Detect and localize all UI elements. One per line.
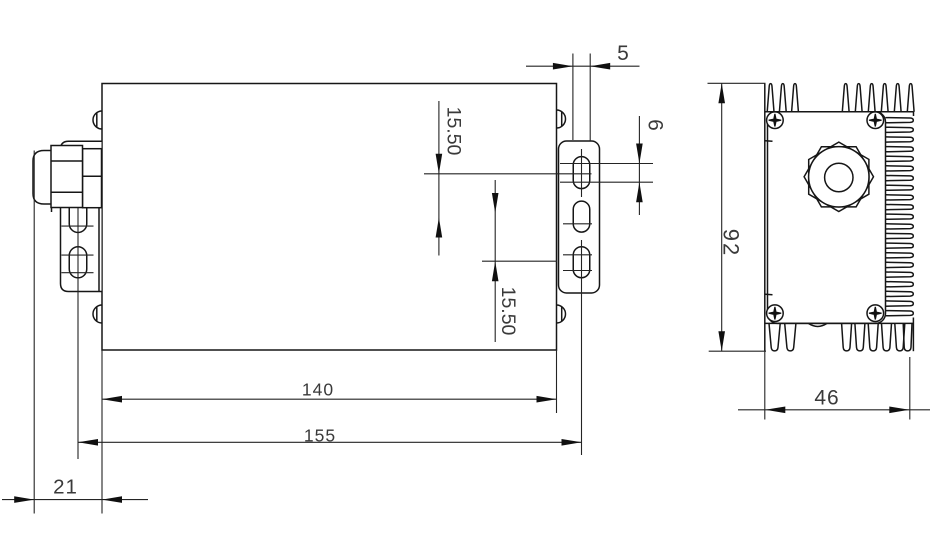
heatsink top fins (tapered): [767, 84, 774, 112]
svg-text:15.50: 15.50: [497, 287, 519, 336]
heatsink bottom edge arc bump: [808, 323, 827, 326]
dim 140 right arrow: [537, 396, 557, 403]
laser module main body outline (side view): [102, 84, 557, 351]
heatsink left wall: [764, 84, 766, 352]
dim 15.50 lower up-arrow: [492, 261, 499, 281]
phillips screw top-right: [867, 112, 884, 129]
dim 92 top arrow: [718, 83, 725, 103]
cable gland neck (into body): [83, 149, 102, 208]
lens barrel outer circle: [809, 147, 869, 207]
dim 155 left arrow: [78, 439, 98, 446]
gland nut hex flat upper: [51, 160, 83, 162]
ext line body left edge down: [101, 350, 103, 514]
ext line slot1 left edge up (5 dim): [572, 54, 574, 141]
right bracket slot 2 (middle): [573, 201, 590, 232]
left bracket slotB tangent lower: [61, 272, 93, 274]
dim 15.50 upper up-arrow: [436, 218, 443, 238]
left slots center line vertical (155 ext): [77, 208, 79, 459]
heatsink right fins (horizontal): [886, 118, 914, 123]
phillips screw top-left: [767, 112, 784, 129]
svg-text:155: 155: [304, 425, 336, 445]
left bracket right edge line: [98, 208, 100, 292]
phillips screw bottom-right: [867, 305, 884, 322]
ext line slot1 right edge up (5 dim): [589, 54, 591, 142]
left bracket slot A (upper): [69, 196, 87, 233]
right mounting bracket plate: [559, 141, 600, 293]
left bracket slotB tangent upper: [61, 254, 93, 256]
face plate tick upper: [765, 140, 772, 143]
dim 92 bottom arrow: [718, 331, 725, 351]
ext line heatsink top (92 dim): [708, 82, 766, 84]
dim line 155: [78, 441, 582, 443]
gland stub below: [51, 208, 53, 213]
svg-text:5: 5: [617, 42, 630, 65]
ext line heatsink right down (46 dim): [909, 357, 911, 420]
phillips screw bottom-left: [767, 305, 784, 322]
dim 21 right arrow (outside): [102, 496, 122, 503]
slot1 center line vertical: [581, 149, 583, 197]
dim 46 right arrow: [889, 407, 909, 414]
slot2 reference line: [563, 223, 592, 225]
lens knurled ring hexagon A: [804, 147, 873, 207]
dim 15.50 upper down-arrow: [436, 154, 443, 174]
dim line 15.50 upper vertical: [438, 101, 440, 256]
svg-text:92: 92: [719, 229, 744, 257]
svg-text:6: 6: [644, 119, 667, 131]
heatsink bottom fins (tapered): [769, 323, 780, 351]
dim line 46: [738, 409, 930, 411]
dim line 5: [526, 65, 640, 67]
cable gland neck step line: [83, 175, 102, 177]
lens knurled ring hexagon B: [809, 142, 869, 211]
ext line heatsink bottom (92 dim): [709, 350, 766, 352]
left bracket slotA tangent line: [61, 225, 93, 227]
right bracket slot 3 (bottom): [573, 247, 590, 278]
cable gland cap (rounded left): [33, 151, 52, 205]
ext line body right edge down: [556, 350, 558, 413]
svg-text:21: 21: [53, 476, 78, 499]
dim 140 left arrow: [102, 396, 122, 403]
dim 6 upper arrow: [636, 144, 643, 164]
dim 155 right arrow: [562, 439, 582, 446]
dim 21 left arrow (outside): [14, 496, 34, 503]
screw head left bottom (body left edge): [93, 305, 102, 323]
dim line 92 vertical: [721, 83, 723, 351]
heatsink bottom fin base line: [765, 322, 914, 324]
left bracket plate: [61, 141, 102, 291]
heatsink face plate: [768, 112, 886, 324]
screw head right bottom (body right edge): [557, 305, 566, 323]
dim 46 left arrow: [765, 407, 785, 414]
svg-text:15.50: 15.50: [443, 107, 465, 156]
dim 5 left arrow: [553, 63, 573, 70]
slot3 tangent line upper: [563, 254, 592, 256]
dim 5 right arrow: [590, 63, 610, 70]
heatsink right wall lower: [912, 318, 914, 352]
gland nut hex flat lower: [51, 191, 83, 193]
ext line gland cap left edge (21 dim): [33, 151, 35, 514]
heatsink top fin base line: [765, 111, 914, 113]
dim line 15.50 lower vertical: [494, 180, 496, 342]
dim line 6 vertical: [638, 116, 640, 215]
svg-text:46: 46: [814, 386, 839, 409]
heatsink right wall upper: [913, 112, 915, 116]
slot1 center line horizontal (15.50 ext): [424, 173, 592, 175]
slot1 tangent line upper (6-dim ext): [560, 163, 653, 165]
left bracket slot B (lower): [69, 247, 87, 278]
face plate tick lower: [765, 293, 772, 296]
ext line heatsink left down (46 dim): [764, 351, 766, 419]
slot3 center line horizontal (15.50 ext): [482, 260, 557, 262]
cable gland hex nut: [51, 146, 83, 208]
svg-text:140: 140: [302, 379, 334, 399]
dim line 21: [2, 499, 148, 501]
slot3 tangent line lower: [563, 270, 592, 272]
dim 6 lower arrow: [636, 182, 643, 202]
lens aperture inner circle: [825, 163, 853, 191]
dim 15.50 lower down-arrow: [492, 193, 499, 213]
screw head left top (body left edge): [93, 111, 102, 129]
slot3 center line vertical extension: [581, 240, 583, 455]
dim line 140: [102, 398, 557, 400]
slot1 tangent line lower (6-dim ext): [560, 181, 653, 183]
right bracket slot 1 (top): [573, 157, 590, 189]
screw head right top (body right edge): [557, 110, 566, 128]
